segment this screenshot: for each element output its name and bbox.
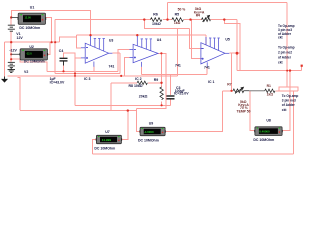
svg-text:12V: 12V xyxy=(17,36,24,40)
wire R6 R5 R4 rail y=19.6 xyxy=(55,19,150,21)
svg-text:U9: U9 xyxy=(149,122,154,126)
svg-text:0.40000: 0.40000 xyxy=(259,130,270,134)
wire R1 right dropper xyxy=(293,91,295,154)
svg-text:DC 10MOhm: DC 10MOhm xyxy=(138,139,159,143)
op-amp U5 xyxy=(201,37,229,67)
svg-text:R6: R6 xyxy=(153,13,158,17)
wire U3 pin4 drop xyxy=(93,67,95,72)
wire pin4 net y=74.3 xyxy=(142,73,208,75)
capacitor C4 xyxy=(60,58,68,65)
svg-text:DC 10MOhm: DC 10MOhm xyxy=(253,138,274,142)
wire rail after R6 xyxy=(163,19,172,21)
wire U2 right terminal xyxy=(46,42,51,54)
svg-text:R4: R4 xyxy=(196,14,200,18)
potentiometer R4 xyxy=(202,15,211,21)
wire U2 left terminal dark xyxy=(11,53,20,55)
wire rail y=71.3 xyxy=(47,70,118,72)
wire U7 right riser xyxy=(122,111,128,140)
battery V2 xyxy=(8,62,15,67)
wire U4 plus riser xyxy=(125,57,130,76)
wire U5 pin4 drop xyxy=(206,67,208,74)
multimeter U1 xyxy=(18,13,47,24)
labels navy xyxy=(9,5,274,150)
ground under V2 xyxy=(8,68,16,73)
svg-text:741: 741 xyxy=(175,63,181,67)
svg-text:U3: U3 xyxy=(109,38,114,42)
wire R-rail riser x=55.2 xyxy=(54,20,56,74)
wire U5 pin7 feed xyxy=(205,35,207,45)
wire U4 offset jog xyxy=(144,20,189,29)
wire U7 left xyxy=(93,140,97,155)
gray wire pot to R1 xyxy=(249,90,265,92)
wire V2 plus jog xyxy=(11,59,47,71)
svg-text:12.00: 12.00 xyxy=(25,17,32,20)
wire R8 left dropper xyxy=(110,83,112,110)
svg-text:U4: U4 xyxy=(157,38,162,42)
svg-text:V2: V2 xyxy=(24,70,28,74)
To Op-amp texts xyxy=(278,24,298,112)
svg-text:741: 741 xyxy=(204,65,210,69)
svg-text:11.999: 11.999 xyxy=(102,138,112,142)
wire output line y=70.6 xyxy=(237,70,302,72)
svg-text:R7: R7 xyxy=(227,83,231,87)
wire top-right rail y=2.3 xyxy=(168,1,288,3)
svg-text:IC 1: IC 1 xyxy=(208,80,214,84)
wire U5 output xyxy=(229,52,240,54)
resistor R1 xyxy=(265,89,275,92)
svg-text:U1: U1 xyxy=(30,5,35,9)
svg-text:U8: U8 xyxy=(266,119,271,123)
wire R1 right tail xyxy=(275,90,298,92)
wire top-left 12V rail xyxy=(12,11,91,36)
svg-text:10kΩ: 10kΩ xyxy=(152,22,161,26)
multimeter U8 xyxy=(254,127,283,136)
wire jog to U3 inverting input xyxy=(59,37,76,42)
wire U4 output xyxy=(137,53,166,108)
wire plus input dropper xyxy=(74,58,76,76)
svg-text:3 pin no3: 3 pin no3 xyxy=(282,99,296,103)
wire H2 y=109.8 xyxy=(20,110,137,112)
wire R9 bottom lead xyxy=(161,102,163,106)
wire R1 jog up xyxy=(279,87,298,91)
wire rail y=73.5 xyxy=(55,73,120,75)
svg-text:ckt: ckt xyxy=(278,60,284,64)
svg-text:DC 10MOhm: DC 10MOhm xyxy=(94,146,115,150)
svg-text:R9: R9 xyxy=(154,78,159,82)
svg-text:U2: U2 xyxy=(29,45,34,49)
wire bias dropper to rail xyxy=(177,28,179,76)
wire U5 noninverting feed xyxy=(192,20,201,59)
battery V1 xyxy=(8,25,15,31)
wire V1 to rail xyxy=(10,32,12,63)
svg-text:IC 3: IC 3 xyxy=(84,77,90,81)
op-amp U4 xyxy=(130,36,159,67)
svg-text:ckt: ckt xyxy=(282,108,288,112)
wire U3 inverting feed xyxy=(77,35,81,48)
svg-text:To Op-amp: To Op-amp xyxy=(278,46,295,50)
wire U3 out to U4 inverting xyxy=(118,49,130,71)
svg-text:-12.0: -12.0 xyxy=(26,53,32,56)
wire U5 inverting feed xyxy=(190,28,201,48)
wire U8 left riser xyxy=(250,91,255,131)
wire U3 output xyxy=(112,52,120,54)
wire dropper to H1 xyxy=(74,76,76,105)
multimeter U7 xyxy=(96,135,122,143)
resistor R8 xyxy=(137,81,147,84)
svg-text:DC 10MOhm: DC 10MOhm xyxy=(24,59,45,63)
wire U8 right riser xyxy=(282,71,290,131)
wire C3 bottom xyxy=(169,100,171,106)
wire R8 to R9 node xyxy=(148,82,162,84)
multimeter U2 xyxy=(19,49,48,60)
maroon labels xyxy=(174,7,273,113)
wire pot R4 jog dropper xyxy=(224,20,240,71)
wire bottom rail xyxy=(93,153,294,155)
svg-text:IC=25.0V: IC=25.0V xyxy=(174,92,189,96)
svg-text:IC=43.0V: IC=43.0V xyxy=(50,80,65,84)
svg-text:of Adder: of Adder xyxy=(278,55,292,59)
svg-text:1kΩ: 1kΩ xyxy=(174,21,181,25)
wire U3 plus feed xyxy=(75,57,81,59)
wire V+ distribution rail y=35 xyxy=(77,34,207,36)
svg-text:ckt: ckt xyxy=(278,36,284,40)
wire rail y=75.9 xyxy=(8,75,178,77)
wire U3 out dropper xyxy=(119,53,121,73)
svg-text:741: 741 xyxy=(109,65,115,69)
wire rail after R4 pot xyxy=(211,19,237,21)
svg-text:-4.0000: -4.0000 xyxy=(144,130,154,134)
wire H2 left riser xyxy=(17,78,20,110)
resistor R6 xyxy=(150,18,161,22)
wire C4 top xyxy=(64,53,76,58)
wire R8 line xyxy=(111,82,137,84)
svg-text:R8 10kΩ: R8 10kΩ xyxy=(129,84,143,88)
wire stub to 2pin tag xyxy=(301,66,303,71)
svg-text:R5: R5 xyxy=(175,13,180,17)
wire U9 right to riser xyxy=(165,91,223,132)
wire -12V rail y=42.2 xyxy=(5,41,60,43)
svg-text:-12V: -12V xyxy=(9,49,17,53)
resistor R5 xyxy=(172,18,183,22)
svg-text:C4: C4 xyxy=(59,49,64,53)
svg-text:20kΩ: 20kΩ xyxy=(139,95,148,99)
svg-text:To Op-amp: To Op-amp xyxy=(282,94,299,98)
wire U9 left dropper xyxy=(137,108,141,131)
wire U1 left terminal dark xyxy=(11,17,18,19)
op-amp U3 xyxy=(81,36,113,67)
wire left ground drop xyxy=(4,42,6,76)
wire U4 out to R9 node xyxy=(160,53,162,83)
svg-text:R1: R1 xyxy=(267,84,271,88)
capacitor C3 xyxy=(166,96,174,99)
wire R7 line left xyxy=(223,90,233,92)
wire C4 bottom xyxy=(63,66,65,72)
wire R9 top lead xyxy=(161,83,163,87)
svg-text:TEMP 50: TEMP 50 xyxy=(237,109,251,113)
wire U5 out dropper to R7 xyxy=(231,53,233,91)
wire battery column xyxy=(10,18,12,26)
wire right dropper x=287.2 xyxy=(286,2,288,87)
svg-text:U7: U7 xyxy=(105,130,110,134)
svg-text:DC 10MOhm: DC 10MOhm xyxy=(19,26,40,30)
ground arrow bottom-left xyxy=(2,77,7,83)
svg-text:IC 2: IC 2 xyxy=(135,77,141,81)
resistor R9 vertical xyxy=(160,87,163,100)
multimeter U9 xyxy=(139,127,165,135)
wire U1 right terminal xyxy=(46,18,52,43)
wire C3 top xyxy=(169,74,171,95)
wire rail after R5 xyxy=(184,19,202,21)
wire pot R4 feedback dropper xyxy=(236,20,238,71)
wire H1 y=105.3 xyxy=(75,104,170,106)
svg-text:50 %: 50 % xyxy=(178,7,186,11)
svg-text:1kΩ: 1kΩ xyxy=(267,93,274,97)
svg-text:U5: U5 xyxy=(225,38,230,42)
potentiometer R7 xyxy=(233,87,249,93)
svg-text:2 pin no2: 2 pin no2 xyxy=(278,51,292,55)
wire riser to R6R5 node xyxy=(167,2,169,19)
svg-text:of Adder: of Adder xyxy=(282,103,296,107)
wire U4 pin4 drop xyxy=(141,67,143,74)
